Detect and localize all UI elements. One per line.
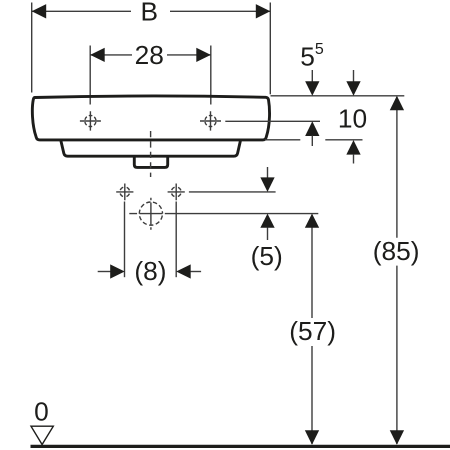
arrowhead B right	[256, 4, 270, 18]
basin top reference line	[271, 95, 405, 97]
basin bottom reference line	[265, 139, 363, 141]
svg-text:0: 0	[34, 397, 49, 427]
arrowhead 28 left	[90, 48, 105, 62]
datum triangle symbol	[31, 426, 53, 444]
drain hole	[139, 198, 162, 230]
dimension 10 up arrow	[346, 140, 360, 163]
washbasin main body outline	[32, 96, 269, 140]
dimension 85 down arrowhead	[390, 430, 404, 445]
extension line B left	[31, 3, 33, 93]
washbasin lower tier outline	[61, 141, 241, 156]
dimension 85 up arrowhead	[390, 96, 404, 111]
extension line B right	[269, 3, 271, 95]
dimension 8 left arrow	[98, 264, 125, 278]
dimension 5.5 down arrow left	[305, 70, 319, 96]
arrowhead B left	[32, 4, 47, 18]
svg-text:10: 10	[338, 103, 367, 133]
dimension line 57	[311, 215, 313, 444]
tap hole right	[200, 111, 221, 130]
svg-text:(5): (5)	[251, 241, 283, 271]
svg-text:28: 28	[135, 40, 164, 70]
dimension 57 up arrowhead	[305, 214, 319, 228]
fixing hole right	[168, 184, 185, 201]
drain level reference line	[129, 213, 318, 215]
dimension line 85	[396, 97, 398, 444]
dimension line B	[32, 10, 271, 12]
floor line	[31, 445, 450, 448]
centerline	[150, 131, 152, 177]
tap hole left	[80, 111, 101, 130]
dimension 5.5 up arrow	[305, 121, 319, 146]
arrowhead 28 right	[196, 48, 211, 62]
fixing hole left	[116, 184, 133, 201]
svg-text:(57): (57)	[289, 316, 336, 346]
fixing hole level reference line	[189, 191, 276, 193]
svg-text:B: B	[141, 0, 159, 26]
dimension line 28	[90, 54, 211, 56]
washbasin outlet tab outline	[134, 157, 167, 167]
extension line 8 right	[175, 202, 177, 278]
svg-text:(8): (8)	[134, 256, 166, 286]
svg-text:(85): (85)	[373, 236, 420, 266]
extension line 28 right	[210, 46, 212, 105]
tap hole level reference line	[225, 120, 320, 122]
dimension 5 up arrow	[260, 214, 274, 240]
extension line 8 left	[124, 202, 126, 278]
dimension 8 right arrow	[176, 264, 201, 278]
dimension 5 down arrow	[260, 167, 274, 192]
dimension 57 down arrowhead	[305, 430, 319, 445]
dimension 10 down arrow	[346, 70, 360, 96]
extension line 28 left	[89, 46, 91, 105]
